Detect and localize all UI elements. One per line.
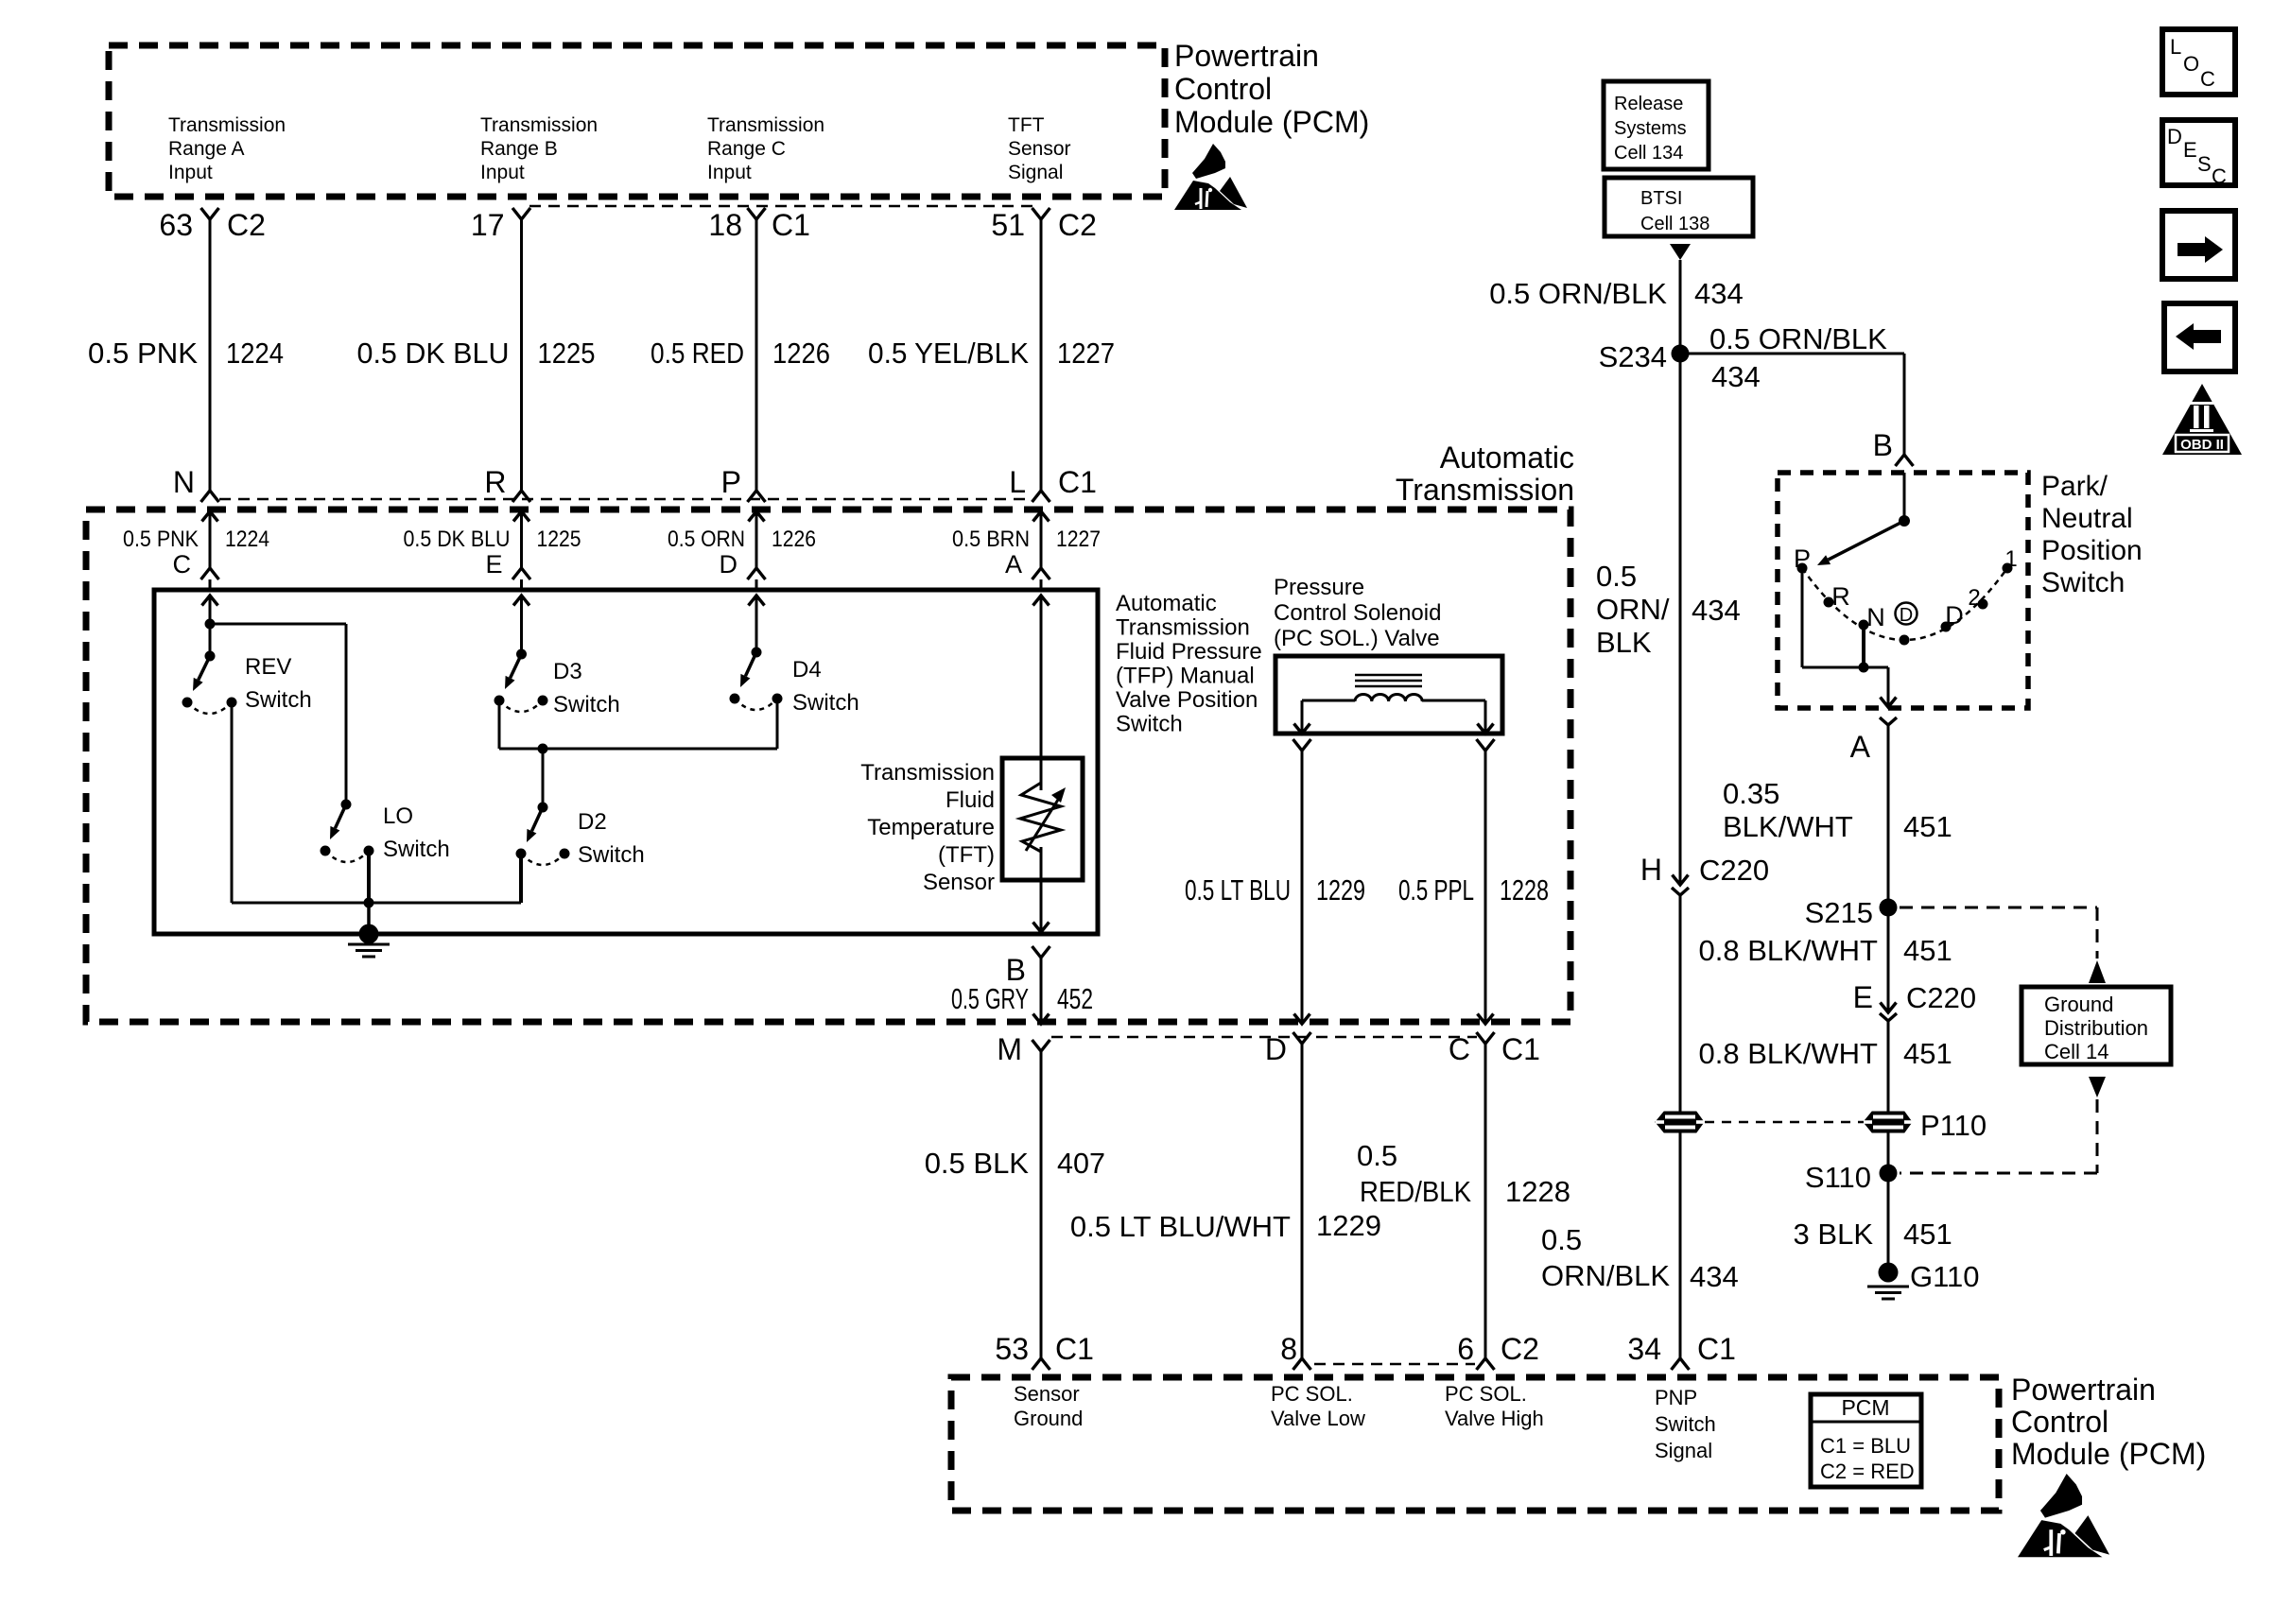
svg-text:B: B	[1873, 428, 1893, 462]
svg-text:2: 2	[1968, 585, 1980, 611]
wire D3 left contact down	[498, 700, 501, 749]
icon DESC	[2162, 120, 2235, 185]
wire 451 3 BLK	[1887, 1173, 1890, 1272]
splice S215	[1880, 899, 1898, 917]
svg-text:L: L	[1009, 465, 1026, 499]
PNP contact N	[1859, 620, 1869, 631]
svg-text:Signal: Signal	[1655, 1439, 1712, 1462]
svg-text:0.5 PPL: 0.5 PPL	[1398, 873, 1474, 907]
TFT thermistor arrow	[1026, 800, 1058, 851]
svg-text:BTSI: BTSI	[1640, 188, 1682, 209]
grommet on ORN/BLK wire	[1656, 1112, 1704, 1132]
svg-text:C1 = BLU: C1 = BLU	[1820, 1434, 1911, 1458]
terminal D wire stub into TFP switch (0.5 ORN 1226)	[749, 511, 765, 522]
connector group dashed line (C1 bottom)	[219, 498, 1032, 501]
ESD symbol bottom	[2018, 1474, 2109, 1557]
svg-text:D2: D2	[578, 809, 607, 835]
svg-text:451: 451	[1903, 934, 1952, 967]
wire D3-D4 link	[499, 748, 777, 751]
wire REV feed to LO switch	[210, 623, 346, 626]
PNP contact R	[1824, 597, 1834, 608]
svg-text:1224: 1224	[225, 527, 269, 552]
svg-text:0.5 LT BLU/WHT: 0.5 LT BLU/WHT	[1070, 1210, 1291, 1243]
svg-text:Transmission: Transmission	[860, 760, 995, 786]
svg-text:Automatic: Automatic	[1440, 441, 1574, 475]
svg-text:Distribution: Distribution	[2044, 1016, 2148, 1040]
svg-text:0.5 PNK: 0.5 PNK	[123, 527, 199, 552]
TFT thermistor zigzag	[1020, 783, 1061, 852]
svg-text:0.5 BLK: 0.5 BLK	[925, 1147, 1030, 1180]
svg-text:451: 451	[1903, 810, 1952, 843]
svg-text:S234: S234	[1599, 340, 1667, 373]
wire 1226 0.5 RED (C)	[755, 219, 758, 491]
Automatic Transmission box (dashed)	[86, 510, 1570, 1022]
svg-text:434: 434	[1694, 277, 1744, 310]
wire 452 0.5 GRY	[1040, 958, 1043, 1024]
PCM module box (bottom, dashed)	[951, 1377, 1999, 1511]
svg-text:R: R	[1831, 582, 1850, 611]
wire 1227 0.5 YEL/BLK (D)	[1040, 219, 1043, 491]
svg-text:LO: LO	[383, 803, 413, 829]
svg-text:1228: 1228	[1505, 1175, 1570, 1208]
connector group dashed line (C1 top)	[529, 205, 1032, 208]
wire N contact to output	[1862, 625, 1865, 667]
svg-text:Ground: Ground	[2044, 993, 2113, 1016]
PNP contact D	[1941, 622, 1952, 632]
D2 switch	[538, 803, 548, 813]
wire ground stem	[367, 903, 371, 934]
svg-text:Powertrain: Powertrain	[2011, 1373, 2156, 1407]
svg-text:C1: C1	[1697, 1332, 1736, 1366]
svg-text:S215: S215	[1805, 896, 1873, 929]
connector M at transmission box edge	[1032, 1040, 1050, 1051]
svg-text:ORN/: ORN/	[1596, 593, 1670, 626]
wire D4 right contact down	[776, 699, 779, 749]
D4 switch	[752, 648, 762, 658]
svg-text:1224: 1224	[226, 337, 284, 370]
wire to D2 switch pivot	[542, 749, 545, 807]
svg-text:451: 451	[1903, 1037, 1952, 1070]
svg-text:Control: Control	[2011, 1405, 2108, 1439]
svg-text:C2 = RED: C2 = RED	[1820, 1460, 1915, 1483]
svg-text:E: E	[2183, 138, 2197, 162]
svg-text:1229: 1229	[1316, 873, 1365, 907]
svg-text:Range A: Range A	[168, 138, 245, 160]
svg-text:0.8 BLK/WHT: 0.8 BLK/WHT	[1699, 1037, 1879, 1070]
svg-text:53: 53	[995, 1332, 1029, 1366]
svg-text:0.5 BRN: 0.5 BRN	[952, 527, 1030, 552]
svg-text:6: 6	[1457, 1332, 1474, 1366]
junction dot D2 feed	[538, 744, 548, 754]
svg-text:0.5 ORN: 0.5 ORN	[668, 527, 745, 552]
connector at PC SOL valve left	[1293, 739, 1311, 751]
svg-text:E: E	[1853, 980, 1873, 1014]
svg-text:Control Solenoid: Control Solenoid	[1274, 600, 1441, 626]
PNP contact D circled	[1900, 635, 1910, 646]
dashed line P110 grommets	[1705, 1121, 1864, 1124]
svg-text:0.5 ORN/BLK: 0.5 ORN/BLK	[1489, 277, 1667, 310]
wire REV right contact to ground bus	[231, 702, 234, 903]
svg-text:N: N	[1866, 603, 1885, 631]
svg-text:A: A	[1005, 550, 1022, 579]
svg-text:C2: C2	[227, 208, 266, 242]
svg-text:A: A	[1850, 730, 1871, 764]
ground dot on TFP box edge	[359, 924, 379, 944]
svg-text:S110: S110	[1805, 1161, 1871, 1194]
D3 switch	[516, 649, 527, 660]
PNP contact arc (dashed)	[1802, 568, 2007, 640]
connector group dashed line (M-D-C)	[1051, 1036, 1477, 1039]
svg-text:0.5 YEL/BLK: 0.5 YEL/BLK	[868, 337, 1029, 370]
svg-text:Neutral: Neutral	[2041, 503, 2133, 534]
svg-text:Switch: Switch	[383, 837, 450, 862]
svg-text:Release: Release	[1614, 94, 1683, 114]
svg-text:1229: 1229	[1316, 1209, 1381, 1242]
PNP switch pivot	[1899, 515, 1910, 527]
Release Systems Cell 134 box	[1604, 81, 1709, 169]
svg-text:Range B: Range B	[480, 138, 558, 160]
svg-text:Transmission: Transmission	[480, 114, 598, 136]
svg-text:Range C: Range C	[707, 138, 786, 160]
svg-text:C220: C220	[1906, 981, 1976, 1014]
svg-text:Transmission: Transmission	[1116, 615, 1250, 641]
svg-text:REV: REV	[245, 654, 291, 680]
BTSI Cell 138 box	[1605, 178, 1753, 236]
PCM connector legend box	[1811, 1394, 1921, 1487]
wire S215 to E connector	[1887, 907, 1890, 1012]
splice S110	[1880, 1165, 1898, 1183]
svg-text:OBD II: OBD II	[2180, 437, 2224, 453]
Ground Distribution Cell 14 box	[2021, 987, 2171, 1064]
svg-text:434: 434	[1690, 1260, 1739, 1293]
solenoid coil	[1355, 694, 1422, 701]
wire P contact to output	[1801, 568, 1804, 667]
svg-text:Cell 138: Cell 138	[1640, 214, 1709, 234]
svg-text:Valve Low: Valve Low	[1271, 1407, 1365, 1430]
connector pin 63 C2 (wire A at PCM)	[201, 208, 219, 219]
svg-text:PNP: PNP	[1655, 1386, 1697, 1409]
svg-text:Input: Input	[168, 162, 213, 183]
TFT sensor box	[1002, 758, 1083, 880]
wire 1228 0.5 RED/BLK	[1484, 1044, 1487, 1358]
wire 451 below P110	[1887, 1132, 1890, 1173]
svg-text:0.5: 0.5	[1357, 1139, 1397, 1172]
ground G110	[1879, 1263, 1899, 1283]
svg-text:C: C	[173, 550, 192, 579]
svg-text:O: O	[2183, 52, 2199, 76]
svg-text:Position: Position	[2041, 535, 2143, 566]
wire 434 0.5 ORN/BLK branch to PNP switch	[1680, 353, 1904, 355]
svg-text:0.5 ORN/BLK: 0.5 ORN/BLK	[1709, 322, 1887, 355]
svg-text:H: H	[1640, 853, 1662, 887]
svg-text:(PC SOL.) Valve: (PC SOL.) Valve	[1274, 626, 1440, 651]
PC SOL valve box	[1275, 656, 1502, 734]
svg-text:51: 51	[991, 208, 1025, 242]
svg-text:Ground: Ground	[1014, 1407, 1083, 1430]
svg-text:8: 8	[1280, 1332, 1297, 1366]
wire A to REV switch pivot	[202, 596, 218, 606]
connector A below PNP switch	[1880, 717, 1897, 725]
svg-text:E: E	[485, 550, 502, 579]
svg-text:Control: Control	[1174, 72, 1272, 106]
svg-text:S: S	[2197, 152, 2212, 176]
svg-text:452: 452	[1057, 982, 1093, 1015]
svg-text:451: 451	[1903, 1218, 1952, 1251]
svg-text:Valve Position: Valve Position	[1116, 687, 1258, 713]
svg-text:0.5: 0.5	[1596, 560, 1637, 593]
terminal A wire stub into TFP switch (0.5 BRN 1227)	[1033, 511, 1050, 522]
LO switch	[341, 800, 352, 810]
svg-text:Transmission: Transmission	[707, 114, 824, 136]
svg-text:Park/: Park/	[2041, 471, 2108, 502]
svg-text:3 BLK: 3 BLK	[1794, 1218, 1874, 1251]
junction dot PNP output	[1859, 663, 1869, 673]
svg-text:Sensor: Sensor	[1014, 1382, 1080, 1406]
wire PNP output exit	[1887, 667, 1890, 707]
svg-text:C: C	[2200, 67, 2215, 91]
wire B to D3 switch pivot	[513, 596, 529, 606]
svg-text:Valve High: Valve High	[1445, 1407, 1544, 1430]
svg-text:C2: C2	[1501, 1332, 1539, 1366]
svg-text:0.5 LT BLU: 0.5 LT BLU	[1185, 873, 1291, 907]
svg-text:1226: 1226	[772, 527, 816, 552]
svg-text:G110: G110	[1910, 1260, 1980, 1293]
svg-text:1227: 1227	[1057, 337, 1115, 370]
svg-text:0.5 RED: 0.5 RED	[651, 337, 744, 370]
svg-text:Switch: Switch	[2041, 567, 2125, 598]
solenoid internal wire left	[1302, 700, 1355, 702]
splice S234	[1672, 345, 1690, 363]
svg-text:Input: Input	[707, 162, 752, 183]
ground symbol TFP switch	[348, 943, 390, 946]
icon OBD II triangle	[2162, 384, 2242, 455]
junction dot ground bus	[364, 898, 374, 908]
svg-text:Cell 14: Cell 14	[2044, 1040, 2108, 1063]
svg-text:Sensor: Sensor	[1008, 138, 1071, 160]
svg-text:0.5: 0.5	[1541, 1223, 1582, 1256]
wire 1225 0.5 DK BLU (B)	[520, 219, 523, 491]
PNP contact 2	[1978, 599, 1988, 610]
solenoid core lines	[1355, 674, 1422, 677]
PNP contact P	[1797, 563, 1808, 574]
icon LOC	[2162, 29, 2235, 95]
PNP switch lever	[1829, 521, 1904, 560]
Park/Neutral Position Switch box (dashed)	[1778, 473, 2028, 708]
svg-text:D: D	[1945, 601, 1964, 630]
svg-text:D4: D4	[792, 657, 822, 682]
wire into PNP switch	[1903, 473, 1906, 521]
svg-text:434: 434	[1711, 360, 1761, 393]
connector group dashed line (8-6)	[1314, 1363, 1475, 1366]
svg-text:D: D	[2167, 125, 2182, 148]
svg-text:Module (PCM): Module (PCM)	[1174, 105, 1369, 139]
svg-text:0.5 DK BLU: 0.5 DK BLU	[404, 527, 511, 552]
wire 1229 0.5 LT BLU	[1301, 751, 1304, 1024]
svg-text:C1: C1	[1058, 465, 1097, 499]
wire C to D4 switch pivot	[749, 596, 765, 606]
svg-text:0.5 GRY: 0.5 GRY	[951, 982, 1029, 1015]
svg-text:Switch: Switch	[245, 687, 312, 713]
svg-text:D3: D3	[553, 659, 582, 684]
svg-text:Switch: Switch	[1116, 712, 1183, 737]
svg-text:Pressure: Pressure	[1274, 575, 1364, 600]
svg-text:BLK/WHT: BLK/WHT	[1723, 810, 1853, 843]
svg-text:18: 18	[708, 208, 742, 242]
svg-text:1: 1	[2004, 546, 2017, 572]
terminal C wire stub into TFP switch (0.5 PNK 1224)	[202, 511, 218, 522]
svg-text:(TFT): (TFT)	[938, 842, 995, 868]
svg-text:0.5 PNK: 0.5 PNK	[88, 337, 198, 370]
connector pin 51 C2 (wire D at PCM)	[1032, 208, 1050, 219]
svg-text:1225: 1225	[538, 337, 596, 370]
svg-text:C1: C1	[772, 208, 810, 242]
connector C C1 at transmission box edge	[1477, 1032, 1495, 1044]
arrow from BTSI	[1670, 244, 1691, 260]
svg-text:R: R	[484, 465, 506, 499]
svg-text:Signal: Signal	[1008, 162, 1063, 183]
terminal E wire stub into TFP switch (0.5 DK BLU 1225)	[513, 511, 529, 522]
svg-text:C2: C2	[1058, 208, 1097, 242]
wire 451 0.35 BLK/WHT	[1887, 725, 1890, 907]
svg-text:ORN/BLK: ORN/BLK	[1541, 1259, 1670, 1292]
svg-text:L: L	[2170, 35, 2181, 59]
ESD symbol top	[1174, 144, 1247, 210]
solenoid internal wire right	[1422, 700, 1485, 702]
svg-text:Automatic: Automatic	[1116, 591, 1217, 616]
svg-text:0.5 DK BLU: 0.5 DK BLU	[357, 337, 510, 370]
grommet P110	[1864, 1112, 1912, 1132]
svg-text:C1: C1	[1055, 1332, 1094, 1366]
svg-text:Module (PCM): Module (PCM)	[2011, 1437, 2206, 1471]
wire LO right contact to ground bus	[367, 851, 371, 903]
svg-text:0.8 BLK/WHT: 0.8 BLK/WHT	[1699, 934, 1879, 967]
svg-text:Switch: Switch	[553, 692, 620, 717]
svg-text:Transmission: Transmission	[1396, 473, 1574, 507]
junction dot REV feed	[205, 619, 216, 630]
connector pin 17 (wire B at PCM)	[512, 208, 530, 219]
svg-text:Fluid: Fluid	[946, 787, 995, 813]
icon arrow left	[2164, 303, 2235, 371]
svg-text:Temperature: Temperature	[867, 815, 995, 840]
connector at PC SOL valve right	[1477, 739, 1495, 751]
svg-text:PC SOL.: PC SOL.	[1445, 1382, 1527, 1406]
wire 451 0.8 BLK/WHT lower	[1887, 1021, 1890, 1112]
svg-text:TFT: TFT	[1008, 114, 1045, 136]
svg-text:407: 407	[1057, 1147, 1105, 1180]
arrow wire D exits TFP box	[1033, 923, 1050, 933]
svg-text:BLK: BLK	[1596, 626, 1652, 659]
wire 1224 0.5 PNK (A) PCM to transmission	[209, 219, 212, 491]
svg-text:434: 434	[1692, 594, 1741, 627]
connector D at transmission box edge	[1293, 1032, 1311, 1044]
svg-text:D: D	[1900, 605, 1913, 626]
wire D through TFT sensor	[1033, 596, 1050, 606]
svg-text:1225: 1225	[537, 527, 581, 552]
REV switch	[205, 651, 216, 662]
connector B on TFT circuit	[1032, 946, 1050, 958]
svg-text:PC SOL.: PC SOL.	[1271, 1382, 1353, 1406]
svg-text:PCM: PCM	[1841, 1395, 1889, 1420]
svg-text:Sensor: Sensor	[923, 870, 995, 895]
svg-text:17: 17	[471, 208, 505, 242]
svg-text:RED/BLK: RED/BLK	[1360, 1175, 1471, 1208]
TFP manual valve position switch box	[154, 590, 1098, 934]
svg-text:M: M	[997, 1032, 1022, 1066]
svg-text:0.35: 0.35	[1723, 777, 1779, 810]
svg-text:Powertrain: Powertrain	[1174, 39, 1319, 73]
dashed reference S215 to Ground Distribution	[1900, 907, 2097, 909]
ground bus inside TFP switch	[232, 902, 521, 905]
PCM module box (top, dashed)	[109, 45, 1165, 197]
svg-text:P110: P110	[1920, 1109, 1987, 1142]
svg-text:C220: C220	[1699, 854, 1769, 887]
svg-text:C1: C1	[1501, 1032, 1540, 1066]
dashed reference Ground Distribution to S110	[2089, 1077, 2106, 1097]
svg-text:Switch: Switch	[792, 690, 859, 716]
svg-text:Fluid Pressure: Fluid Pressure	[1116, 639, 1262, 665]
svg-text:Transmission: Transmission	[168, 114, 286, 136]
svg-text:1228: 1228	[1500, 873, 1549, 907]
svg-text:Cell 134: Cell 134	[1614, 143, 1683, 164]
svg-text:D: D	[1265, 1032, 1287, 1066]
icon arrow right	[2162, 211, 2235, 279]
svg-text:34: 34	[1627, 1332, 1661, 1366]
svg-text:N: N	[173, 465, 195, 499]
svg-text:Switch: Switch	[578, 842, 645, 868]
wire D2 left contact to ground bus	[519, 854, 523, 903]
svg-text:P: P	[721, 465, 741, 499]
wire 1228 0.5 PPL	[1484, 751, 1487, 1024]
wire 1229 0.5 LT BLU/WHT	[1301, 1044, 1304, 1358]
svg-text:D: D	[720, 550, 738, 579]
svg-text:Switch: Switch	[1655, 1412, 1716, 1436]
wire 434 0.5 ORN/BLK from BTSI	[1679, 260, 1682, 885]
svg-text:1226: 1226	[772, 337, 830, 370]
svg-text:(TFP) Manual: (TFP) Manual	[1116, 664, 1255, 689]
svg-text:Input: Input	[480, 162, 525, 183]
svg-text:1227: 1227	[1056, 527, 1101, 552]
PNP contact 1	[2003, 563, 2013, 574]
wire 407 0.5 BLK sensor ground	[1040, 1051, 1043, 1358]
svg-text:Systems: Systems	[1614, 118, 1687, 139]
svg-text:C: C	[2212, 164, 2227, 188]
svg-text:63: 63	[159, 208, 193, 242]
connector pin 18 C1 (wire C at PCM)	[748, 208, 766, 219]
svg-text:C: C	[1449, 1032, 1470, 1066]
